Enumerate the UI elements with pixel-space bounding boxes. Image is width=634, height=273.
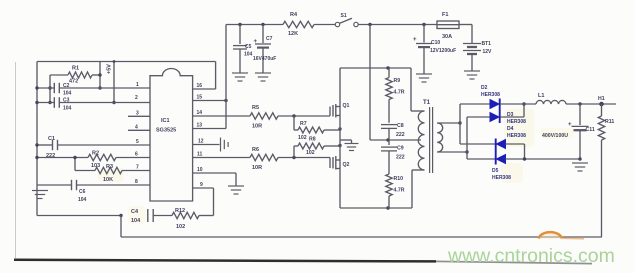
svg-text:+5V: +5V: [107, 64, 113, 74]
svg-text:10R: 10R: [252, 124, 262, 130]
svg-text:5: 5: [136, 139, 139, 145]
resistor R12: [172, 208, 214, 230]
svg-text:IC1: IC1: [161, 118, 170, 124]
wire Vcc/Vref top line to pin 16: [37, 62, 216, 90]
resistor R11: [598, 104, 614, 237]
ground C11: [572, 163, 588, 171]
svg-text:15: 15: [197, 95, 203, 101]
svg-text:S1: S1: [341, 13, 347, 19]
wire R12 to pin 9: [193, 188, 214, 216]
svg-text:R8: R8: [309, 137, 316, 143]
svg-text:D2: D2: [481, 85, 488, 91]
wire secondary top: [437, 121, 461, 124]
svg-text:+: +: [413, 37, 417, 43]
resistor R1: [50, 66, 100, 85]
svg-text:C8: C8: [397, 123, 404, 129]
resistor R2: [35, 151, 150, 170]
svg-text:222: 222: [396, 132, 405, 138]
resistor R10: [386, 174, 405, 208]
resistor R4: [283, 12, 314, 37]
ground pin 12: [193, 138, 229, 152]
capacitor C4: [131, 209, 172, 224]
transistor Q1: [330, 103, 350, 118]
fuse F1: [437, 12, 459, 40]
transistor Q2: [330, 156, 350, 170]
diode D3: [467, 102, 526, 125]
svg-text:HER308: HER308: [507, 133, 526, 139]
wire R1 left leg: [48, 75, 51, 104]
node H1 output: [598, 96, 605, 106]
svg-text:L1: L1: [538, 93, 544, 99]
capacitor C11: [542, 104, 595, 161]
ground C5: [232, 73, 248, 81]
svg-text:10R: 10R: [252, 165, 262, 171]
resistor R5: [193, 105, 330, 130]
wire Q1 drain column: [339, 68, 341, 208]
svg-text:C11: C11: [586, 127, 595, 133]
svg-text:30A: 30A: [442, 34, 452, 40]
svg-text:R11: R11: [605, 119, 614, 125]
svg-text:www.cntronics.com: www.cntronics.com: [447, 245, 615, 267]
diode D5: [467, 152, 581, 182]
svg-text:R12: R12: [175, 208, 185, 214]
ground C10: [416, 74, 432, 82]
resistor R6: [193, 147, 330, 171]
svg-text:R3: R3: [106, 164, 113, 170]
diode D4: [460, 126, 526, 159]
capacitor C3: [35, 97, 150, 111]
svg-text:R1: R1: [72, 66, 79, 72]
wire secondary to D3 D5 anodes: [466, 117, 468, 159]
ground pin 10: [193, 173, 244, 194]
svg-text:HER308: HER308: [507, 119, 526, 125]
svg-text:16: 16: [197, 83, 203, 89]
svg-text:SG3525: SG3525: [156, 128, 176, 134]
svg-text:C9: C9: [397, 146, 404, 152]
node +5V label: [107, 64, 113, 74]
svg-text:R5: R5: [252, 105, 259, 111]
wire pin 3 stub: [128, 115, 150, 117]
svg-text:+: +: [568, 122, 572, 128]
svg-text:C5: C5: [245, 44, 252, 50]
battery BT1: [463, 25, 492, 71]
page bottom rule gray: [436, 261, 592, 263]
wire top rail drop to pin 13: [193, 25, 226, 129]
svg-text:104: 104: [244, 52, 253, 58]
svg-text:9: 9: [200, 182, 203, 188]
wire Q2 drain to primary bottom: [340, 170, 425, 210]
svg-text:400V/100U: 400V/100U: [542, 133, 568, 139]
resistor R8: [294, 137, 342, 158]
svg-text:Q1: Q1: [343, 103, 350, 109]
svg-text:C10: C10: [431, 40, 440, 46]
svg-text:+: +: [254, 39, 258, 45]
svg-text:R7: R7: [300, 121, 307, 127]
ground left rail: [32, 191, 48, 199]
wire L1 to output: [566, 102, 616, 105]
wire R1 right leg to Vref: [98, 62, 101, 90]
svg-text:102: 102: [306, 150, 315, 156]
svg-text:Q2: Q2: [343, 162, 350, 168]
page bottom rule dark: [14, 260, 436, 262]
svg-text:10K: 10K: [103, 177, 113, 183]
ground C7: [255, 73, 271, 81]
svg-text:14: 14: [197, 110, 203, 116]
capacitor C7: [253, 25, 276, 73]
svg-text:16V470uF: 16V470uF: [253, 56, 276, 62]
svg-text:12: 12: [198, 139, 204, 145]
wire bottom-left branch: [37, 214, 123, 217]
svg-text:D3: D3: [507, 112, 514, 118]
svg-text:HER308: HER308: [481, 92, 500, 98]
svg-text:102: 102: [176, 224, 185, 230]
svg-text:7: 7: [136, 165, 139, 171]
wire secondary bottom: [437, 150, 468, 153]
wire secondary to D2 D4 anodes: [459, 104, 461, 144]
svg-text:10: 10: [197, 167, 203, 173]
inductor L1: [536, 93, 566, 104]
svg-text:12V: 12V: [483, 49, 493, 55]
svg-text:C6: C6: [79, 189, 86, 195]
svg-text:11: 11: [197, 152, 203, 158]
svg-text:222: 222: [396, 155, 405, 161]
svg-text:D4: D4: [507, 126, 514, 132]
svg-text:F1: F1: [442, 12, 448, 18]
wire Q1 drain to primary top: [340, 66, 425, 111]
svg-text:HER308: HER308: [492, 175, 511, 181]
svg-text:4: 4: [135, 124, 138, 130]
ground MOSFET sources: [340, 140, 359, 151]
watermark text www.cntronics.com: [447, 245, 615, 267]
svg-text:12K: 12K: [288, 31, 298, 37]
op-amp U1 IC1 SG3525 body: [150, 68, 193, 201]
wire +12V center drop: [369, 25, 371, 141]
svg-text:4.7R: 4.7R: [394, 90, 405, 96]
svg-text:C2: C2: [63, 83, 70, 89]
frame left edge line: [15, 62, 17, 258]
svg-text:1: 1: [136, 82, 139, 88]
svg-text:2: 2: [135, 95, 138, 101]
svg-text:104: 104: [63, 91, 72, 97]
wire left rail: [36, 62, 38, 216]
resistor R9: [386, 68, 405, 123]
svg-text:3: 3: [136, 110, 139, 116]
capacitor C5: [233, 25, 253, 73]
capacitor C6: [37, 180, 150, 203]
logo arc watermark: [539, 232, 585, 239]
svg-text:12V1200uF: 12V1200uF: [430, 48, 456, 54]
capacitor C10: [413, 25, 456, 74]
ground BT1: [464, 71, 480, 79]
svg-text:4.7R: 4.7R: [394, 188, 405, 194]
svg-text:T1: T1: [423, 100, 431, 106]
wire to bottom rail: [120, 216, 122, 238]
svg-text:102: 102: [298, 135, 307, 141]
resistor R7: [294, 116, 342, 141]
svg-text:C1: C1: [48, 136, 55, 142]
diode D2: [460, 85, 500, 111]
svg-text:104: 104: [78, 197, 87, 203]
resistor R3: [73, 156, 150, 183]
capacitor C8: [381, 123, 405, 140]
svg-text:104: 104: [131, 218, 141, 224]
svg-text:C7: C7: [266, 36, 273, 42]
svg-text:13: 13: [197, 123, 203, 129]
svg-text:R9: R9: [394, 78, 401, 84]
svg-text:104: 104: [63, 106, 72, 112]
wire bottom rail: [121, 236, 602, 238]
svg-text:C3: C3: [63, 98, 70, 104]
wire top rail: [226, 23, 472, 26]
wire pin 4 stub: [128, 129, 150, 131]
wire D2 cathode to L1: [501, 103, 536, 105]
wire center tap: [370, 138, 421, 141]
svg-text:R6: R6: [252, 147, 259, 153]
svg-text:6: 6: [135, 152, 138, 158]
svg-text:R10: R10: [394, 176, 404, 182]
svg-text:D5: D5: [492, 168, 499, 174]
svg-text:H1: H1: [598, 96, 605, 102]
svg-text:472: 472: [69, 79, 78, 85]
wire pin 15 stub: [193, 99, 228, 102]
pin numbers right: [197, 83, 204, 188]
svg-text:C4: C4: [131, 209, 139, 215]
svg-text:BT1: BT1: [482, 41, 492, 47]
svg-text:R2: R2: [92, 151, 99, 157]
svg-text:8: 8: [135, 179, 138, 185]
switch S1: [335, 13, 358, 27]
wire +5V vertical to pin 2 line: [112, 60, 115, 104]
transformer T1: [418, 100, 442, 173]
capacitor C2: [35, 83, 150, 97]
capacitor C9: [381, 140, 405, 174]
pin numbers left: [135, 82, 139, 185]
svg-text:R4: R4: [290, 12, 298, 18]
capacitor C1: [35, 136, 150, 159]
